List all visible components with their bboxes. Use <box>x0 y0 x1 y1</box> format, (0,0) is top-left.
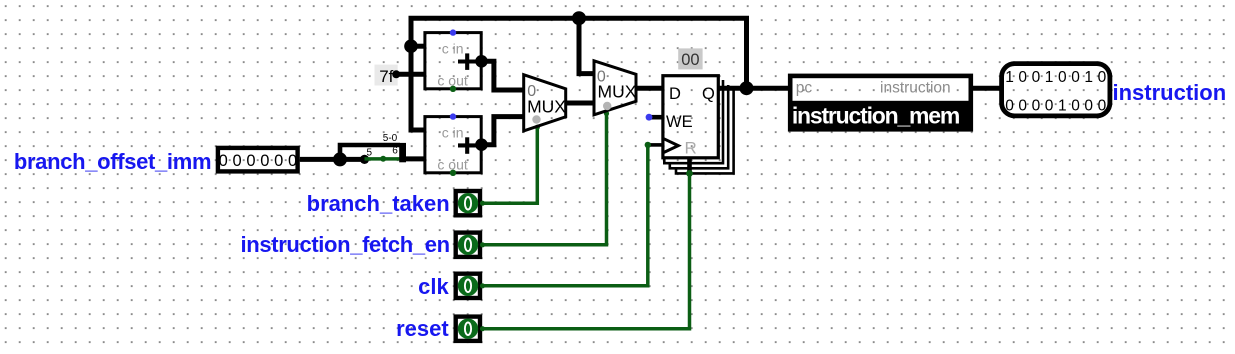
svg-text:0: 0 <box>219 152 228 170</box>
wire: adder2 output to MUX1 input 1 <box>478 117 524 149</box>
svg-text:1: 1 <box>1058 98 1067 115</box>
node: junction at adder1 input A <box>404 39 418 53</box>
wire: PC feedback top bus <box>411 18 747 130</box>
node: green dot at clk wire end <box>645 142 651 148</box>
node: green dot at MUX1 select <box>535 125 540 130</box>
svg-text:0: 0 <box>1098 98 1107 115</box>
svg-text:0: 0 <box>1018 69 1027 86</box>
wire: MUX2 output to register D <box>636 86 663 91</box>
svg-text:instruction: instruction <box>880 80 951 97</box>
node: green dot on sign-bit wire <box>380 156 386 162</box>
wire: branch from top bus to MUX2 input 0 <box>579 18 594 73</box>
svg-text:0: 0 <box>1084 98 1093 115</box>
svg-text:6: 6 <box>392 145 398 156</box>
input pin instruction_fetch_en <box>456 233 485 257</box>
svg-text:WE: WE <box>666 113 693 131</box>
constant C1 value 7f <box>375 65 425 86</box>
svg-text:MUX: MUX <box>598 82 637 102</box>
wire: green sign bit from splitter S1 to splitter S2 <box>365 157 400 161</box>
output pin instruction <box>1002 64 1110 116</box>
adder U2 (PC + offset) <box>425 113 481 176</box>
multiplexer MUX2 <box>594 61 637 115</box>
svg-text:0: 0 <box>1071 69 1080 86</box>
svg-text:0: 0 <box>1058 69 1067 86</box>
svg-text:branch_offset_imm: branch_offset_imm <box>14 149 211 174</box>
wire: green reset net <box>482 173 689 328</box>
svg-text:0: 0 <box>1098 69 1107 86</box>
svg-text:branch_taken: branch_taken <box>307 191 450 216</box>
splitter S1 trunk end (bit 5 tap) <box>360 155 369 164</box>
node: junction at register Q / instruction_mem pc <box>740 81 754 95</box>
input pin branch_taken <box>456 191 485 215</box>
svg-text:00: 00 <box>681 51 699 69</box>
svg-text:0: 0 <box>274 152 283 170</box>
svg-text:reset: reset <box>396 316 449 341</box>
register R1 (PC register) <box>663 76 718 158</box>
svg-text:0: 0 <box>1045 98 1054 115</box>
adder U1 (PC + 7f) <box>425 29 481 92</box>
multiplexer MUX1 <box>524 75 567 131</box>
wire: elbow to splitter B leg 5-0 <box>340 145 400 159</box>
wire: register WE floating stub <box>646 114 663 121</box>
svg-text:0: 0 <box>288 152 297 170</box>
wire: adder1 output to MUX1 input 0 <box>478 58 524 91</box>
node: junction at branch_offset_imm fanout <box>333 152 347 166</box>
svg-text:0: 0 <box>1071 98 1080 115</box>
svg-text:1: 1 <box>1005 69 1014 86</box>
svg-text:7f: 7f <box>379 67 393 86</box>
svg-text:0: 0 <box>260 152 269 170</box>
svg-text:0: 0 <box>1005 98 1014 115</box>
wire: branch_offset_imm bus from pin <box>300 157 365 162</box>
svg-text:0: 0 <box>1032 69 1041 86</box>
input pin branch_offset_imm <box>218 148 298 172</box>
wire: green branch_taken net <box>482 126 537 203</box>
wire: register Q to instruction_mem pc <box>718 86 790 91</box>
input pin clk <box>456 274 485 298</box>
splitter S2 trunk <box>403 143 425 162</box>
register clock pin stub <box>648 143 663 147</box>
svg-text:0: 0 <box>1032 98 1041 115</box>
wire: green instruction_fetch_en net <box>482 113 606 245</box>
svg-text:D: D <box>669 85 681 103</box>
wire: instruction_mem output to output pin <box>971 86 1003 91</box>
wire: stub to adder1 input A <box>411 44 425 49</box>
node: junction on top bus <box>572 11 586 25</box>
svg-text:1: 1 <box>1084 69 1093 86</box>
instruction_mem ROM block <box>788 76 973 132</box>
svg-text:c in: c in <box>442 125 464 141</box>
svg-text:pc: pc <box>796 80 813 97</box>
svg-text:instruction_mem: instruction_mem <box>792 103 960 129</box>
svg-text:5: 5 <box>367 148 373 159</box>
wire: MUX1 output to MUX2 input 1 <box>566 101 594 106</box>
svg-text:instruction: instruction <box>1113 80 1227 105</box>
svg-text:instruction_fetch_en: instruction_fetch_en <box>241 232 450 257</box>
svg-text:1: 1 <box>1045 69 1054 86</box>
register R1 shadow pages <box>664 80 733 173</box>
node: green dot at register reset pin <box>686 170 693 177</box>
input pin reset <box>456 317 485 341</box>
register R1 reset stub <box>687 158 692 174</box>
svg-text:0: 0 <box>246 152 255 170</box>
svg-text:clk: clk <box>418 274 449 299</box>
wire: green clk net <box>482 145 648 286</box>
svg-text:0: 0 <box>233 152 242 170</box>
svg-text:MUX: MUX <box>527 97 566 117</box>
svg-text:5-0: 5-0 <box>383 133 398 144</box>
label: register value 00 <box>678 48 702 69</box>
node: green dot at MUX2 select <box>604 111 609 116</box>
svg-text:c in: c in <box>442 41 464 57</box>
svg-text:Q: Q <box>702 85 715 103</box>
svg-text:0: 0 <box>1018 98 1027 115</box>
svg-text:R: R <box>685 138 697 157</box>
